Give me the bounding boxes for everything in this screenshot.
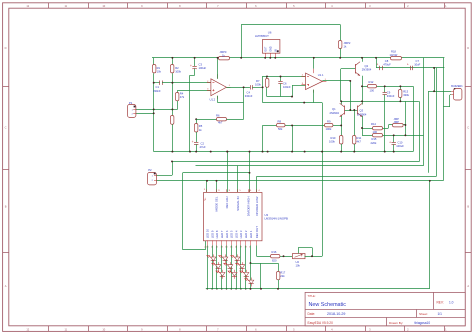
svg-text:Date:: Date: <box>308 312 316 316</box>
svg-text:330k: 330k <box>403 93 409 97</box>
svg-text:R1: R1 <box>157 66 161 70</box>
svg-text:U1.2: U1.2 <box>210 98 216 102</box>
svg-text:820: 820 <box>272 259 277 263</box>
svg-text:Q1: Q1 <box>332 107 336 111</box>
svg-text:U1.1: U1.1 <box>318 73 324 77</box>
svg-text:C2: C2 <box>201 142 205 146</box>
svg-text:10uF: 10uF <box>414 62 420 66</box>
svg-text:Q3: Q3 <box>360 109 364 113</box>
svg-text:C8: C8 <box>385 59 389 63</box>
svg-text:New Schematic: New Schematic <box>309 302 347 308</box>
svg-text:330nF: 330nF <box>153 89 161 93</box>
svg-text:C10: C10 <box>398 141 403 145</box>
svg-text:100uF: 100uF <box>396 144 404 148</box>
svg-text:2018-10-29: 2018-10-29 <box>327 312 345 316</box>
svg-text:P1: P1 <box>129 101 133 105</box>
svg-text:B: B <box>467 205 469 209</box>
svg-text:DIVIDER LOW: DIVIDER LOW <box>255 196 259 215</box>
svg-text:D: D <box>467 46 469 50</box>
svg-text:R15: R15 <box>372 137 377 141</box>
svg-text:LED 3: LED 3 <box>239 230 243 238</box>
svg-text:LED 7: LED 7 <box>220 230 224 238</box>
svg-text:100k: 100k <box>329 139 335 143</box>
svg-text:R17: R17 <box>280 271 285 275</box>
svg-text:+: + <box>376 62 378 66</box>
svg-text:R10: R10 <box>331 136 336 140</box>
svg-text:A: A <box>467 284 469 288</box>
svg-text:R14: R14 <box>371 122 376 126</box>
svg-text:C6: C6 <box>283 82 287 86</box>
svg-text:REF ADJ: REF ADJ <box>225 196 229 208</box>
svg-text:LED 8: LED 8 <box>215 230 219 238</box>
svg-text:+: + <box>192 140 194 144</box>
svg-text:LED 4: LED 4 <box>234 230 238 238</box>
svg-text:D: D <box>5 46 7 50</box>
svg-text:A: A <box>5 284 7 288</box>
svg-text:R7: R7 <box>256 79 260 83</box>
svg-text:LED 5: LED 5 <box>230 230 234 238</box>
svg-text:R16: R16 <box>272 250 277 254</box>
svg-text:10/1W: 10/1W <box>390 53 398 57</box>
svg-text:+: + <box>407 62 409 66</box>
svg-text:2N3904: 2N3904 <box>330 111 340 115</box>
svg-text:1.0: 1.0 <box>449 300 454 304</box>
svg-text:LED 2: LED 2 <box>244 230 248 238</box>
svg-text:LED 1: LED 1 <box>249 230 253 238</box>
svg-text:TITLE:: TITLE: <box>308 294 316 298</box>
svg-text:100: 100 <box>370 89 375 93</box>
svg-text:Sheet:: Sheet: <box>419 312 428 316</box>
svg-text:100: 100 <box>373 130 378 134</box>
svg-text:U2: U2 <box>296 260 300 264</box>
svg-text:C1: C1 <box>156 85 160 89</box>
svg-text:B: B <box>5 205 7 209</box>
svg-text:R12: R12 <box>369 80 374 84</box>
svg-text:47uF: 47uF <box>200 145 206 149</box>
svg-text:100k: 100k <box>175 69 181 73</box>
svg-text:LM3914N-1/NOPB: LM3914N-1/NOPB <box>265 217 288 221</box>
svg-text:DIVIDER HIGH: DIVIDER HIGH <box>246 197 250 217</box>
svg-text:47k: 47k <box>180 95 185 99</box>
svg-text:GND: GND <box>270 46 272 51</box>
svg-text:JMP2: JMP2 <box>344 41 351 45</box>
svg-text:+: + <box>190 64 192 68</box>
svg-text:LED 6: LED 6 <box>225 230 229 238</box>
svg-text:REV:: REV: <box>437 300 444 304</box>
svg-text:P2: P2 <box>148 168 152 172</box>
svg-text:220k: 220k <box>371 141 377 145</box>
svg-text:R4: R4 <box>180 92 184 96</box>
svg-text:4k7: 4k7 <box>357 139 362 143</box>
svg-text:R11: R11 <box>357 136 362 140</box>
svg-text:1/1: 1/1 <box>438 312 443 316</box>
svg-text:OUT: OUT <box>265 46 267 51</box>
svg-text:330nF: 330nF <box>387 94 395 98</box>
svg-text:R9: R9 <box>327 120 331 124</box>
svg-text:JMP: JMP <box>394 120 400 124</box>
svg-text:100k: 100k <box>326 127 332 131</box>
svg-text:MODE SEL: MODE SEL <box>215 196 219 211</box>
svg-text:C7: C7 <box>416 59 420 63</box>
svg-text:EasyEDA V5.9.20: EasyEDA V5.9.20 <box>308 321 334 325</box>
svg-text:LED 10: LED 10 <box>206 229 210 239</box>
svg-text:Drawn By:: Drawn By: <box>389 321 403 325</box>
svg-text:R2: R2 <box>175 66 179 70</box>
svg-text:+: + <box>389 140 391 144</box>
svg-text:BUZZER1: BUZZER1 <box>451 85 463 88</box>
svg-text:R18: R18 <box>391 49 396 53</box>
svg-text:REF OUT: REF OUT <box>255 226 259 239</box>
svg-text:330nF: 330nF <box>245 94 253 98</box>
svg-text:22k: 22k <box>280 274 285 278</box>
svg-text:LED 9: LED 9 <box>210 230 214 238</box>
svg-text:thiagosa10: thiagosa10 <box>415 321 431 325</box>
svg-text:100nF: 100nF <box>283 85 291 89</box>
svg-text:R6: R6 <box>216 114 220 118</box>
svg-text:R13: R13 <box>403 89 408 93</box>
svg-text:10k: 10k <box>296 263 301 267</box>
svg-text:100k: 100k <box>255 83 261 87</box>
svg-text:10k: 10k <box>157 69 162 73</box>
svg-text:R8: R8 <box>278 120 282 124</box>
svg-text:100uF: 100uF <box>199 66 207 70</box>
svg-text:2N3904: 2N3904 <box>357 112 367 116</box>
svg-text:56k: 56k <box>278 127 283 131</box>
svg-text:Q2: Q2 <box>365 64 369 68</box>
svg-text:R5: R5 <box>199 124 203 128</box>
svg-text:C: C <box>467 125 469 129</box>
svg-text:C9: C9 <box>387 91 391 95</box>
svg-text:LM7805CT: LM7805CT <box>255 34 269 38</box>
svg-text:2N3904: 2N3904 <box>362 68 372 72</box>
svg-text:SIGNAL IN: SIGNAL IN <box>236 197 240 211</box>
svg-text:470uF: 470uF <box>383 62 391 66</box>
svg-text:C4: C4 <box>247 91 251 95</box>
svg-text:C3: C3 <box>199 63 203 67</box>
svg-text:C: C <box>5 125 7 129</box>
